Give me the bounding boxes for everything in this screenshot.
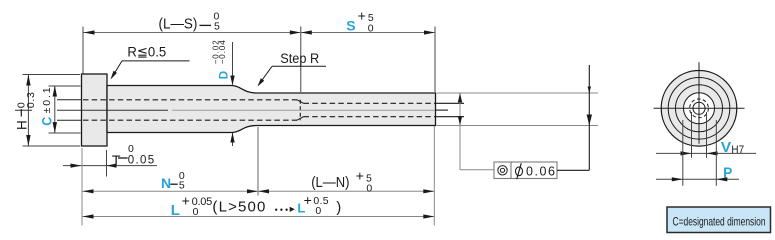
dashed circle — [690, 99, 709, 118]
connector to concentricity frame (left) — [460, 169, 494, 171]
circle 2 — [668, 78, 730, 140]
bore line beyond tip upper — [436, 102, 464, 104]
arrow left of (L-S) — [84, 30, 95, 34]
circle 4 (white) — [684, 93, 715, 124]
C dimension extension lines — [49, 85, 81, 87]
label S with tolerance +5/0 — [346, 8, 374, 35]
svg-text:Step R: Step R — [280, 51, 319, 66]
leader vertical (x589) — [588, 65, 590, 170]
left long extension line (x82 below head) — [81, 148, 83, 226]
svg-text:+: + — [358, 8, 366, 24]
arrow left of S — [301, 30, 312, 34]
svg-text:T: T — [112, 152, 121, 168]
V dimension line — [656, 152, 756, 154]
L dimension line — [83, 216, 435, 218]
svg-text:C±0.1: C±0.1 — [38, 87, 54, 126]
end view center line vertical — [698, 62, 700, 144]
small circle — [693, 102, 705, 114]
arrow right of S — [424, 30, 435, 34]
hidden bore step chamfer upper — [297, 100, 304, 104]
tip diameter extension line top (y93) — [437, 92, 599, 94]
svg-text:0: 0 — [193, 206, 199, 218]
label (L-N) with tolerance +5/0 — [311, 167, 372, 194]
D extension line upper with arrow — [232, 42, 234, 85]
hidden bore step vertical — [299, 100, 301, 120]
label T with tolerance 0/-0.05 — [112, 143, 154, 168]
N / (L-N) dimension line — [83, 190, 435, 192]
extension line head left top (x83) — [82, 27, 84, 74]
V dimension extension lines — [691, 112, 693, 158]
top dimension line (L-S) / S — [84, 32, 436, 34]
center line (dark part) — [81, 109, 168, 111]
svg-text:): ) — [336, 199, 341, 216]
filled arrow on leader (bottom) — [587, 115, 592, 126]
hidden line upper (thin region) — [304, 102, 436, 104]
tip diameter extension line bottom (y125.5) — [437, 125, 599, 127]
extension line tip (x435) top — [434, 27, 436, 93]
label D (rotated) with tolerance -0.02/-0.04 — [212, 40, 231, 80]
center line left stub — [15, 109, 32, 111]
svg-text:V: V — [721, 139, 731, 156]
svg-text:(L—N): (L—N) — [311, 174, 349, 191]
right extension line (x434.3 below pin) — [433, 126, 435, 226]
label V H7 — [721, 139, 744, 156]
svg-text:+: + — [356, 167, 364, 183]
D lower arrow — [232, 133, 234, 146]
center line (gray part) — [172, 109, 435, 111]
tip diameter dimension vertical (x460) — [459, 93, 461, 170]
svg-text:L: L — [171, 202, 180, 219]
N boundary extension line (x258) — [257, 127, 259, 196]
center line stub beyond tip — [436, 109, 448, 111]
pin body (shank, step transition, thin tip) — [107, 86, 436, 133]
P dimension line — [656, 178, 739, 180]
svg-text:C=designated dimension: C=designated dimension — [673, 214, 766, 228]
P dimension extension lines — [682, 120, 684, 186]
svg-text:0.06: 0.06 — [526, 165, 555, 179]
svg-text:N: N — [161, 175, 171, 191]
svg-text:0: 0 — [368, 22, 374, 34]
svg-text:R≦0.5: R≦0.5 — [127, 45, 166, 60]
svg-text:0: 0 — [366, 182, 372, 194]
hidden line upper (thick region) — [83, 99, 297, 101]
H dimension: extension lines — [23, 74, 81, 76]
circle 3 — [676, 85, 723, 132]
hidden bore step chamfer lower — [297, 117, 304, 121]
svg-text:0: 0 — [128, 143, 134, 155]
label Step R with leader — [258, 51, 327, 87]
svg-text:H7: H7 — [731, 144, 744, 156]
end view center line horizontal — [654, 107, 745, 109]
small arrow on leader (top) — [588, 87, 591, 94]
outer circle (head) — [661, 71, 737, 147]
hidden line extension left of head (upper) — [57, 99, 82, 101]
svg-text:+: + — [182, 193, 190, 209]
T dimension line — [63, 165, 157, 167]
svg-text:5: 5 — [214, 20, 220, 32]
svg-text:(L>500: (L>500 — [212, 199, 265, 216]
label L with tolerance +0.05/0 and note — [171, 192, 341, 219]
note box C=designated dimension — [667, 207, 771, 233]
pin head — [82, 74, 108, 146]
H dimension line — [27, 75, 29, 147]
label (L-S) with tolerance 0/-5 — [159, 11, 221, 33]
svg-text:5: 5 — [179, 179, 185, 191]
svg-text:+: + — [304, 192, 312, 208]
hidden line extension left of head (lower) — [57, 119, 82, 121]
svg-text:(L—S): (L—S) — [159, 16, 198, 33]
arrow right of (L-S) — [290, 30, 301, 34]
svg-text:0.05: 0.05 — [128, 154, 155, 166]
C dimension line — [54, 86, 56, 134]
svg-text:0: 0 — [315, 205, 321, 217]
label R<=0.5 with leader — [111, 45, 190, 80]
svg-text:P: P — [723, 164, 732, 181]
label N with tolerance 0/-5 — [161, 170, 185, 191]
T dimension: extension line right face — [106, 150, 108, 177]
extension line S boundary (x300.8) — [300, 27, 302, 93]
center line left of head — [57, 109, 81, 111]
hidden line lower (thin region) — [304, 116, 436, 118]
bore line beyond tip lower — [436, 116, 464, 118]
concentricity feature control frame — [494, 162, 557, 179]
svg-text:S: S — [346, 18, 355, 34]
hidden line lower (thick region) — [83, 119, 297, 121]
connector from frame (right) — [557, 169, 589, 171]
